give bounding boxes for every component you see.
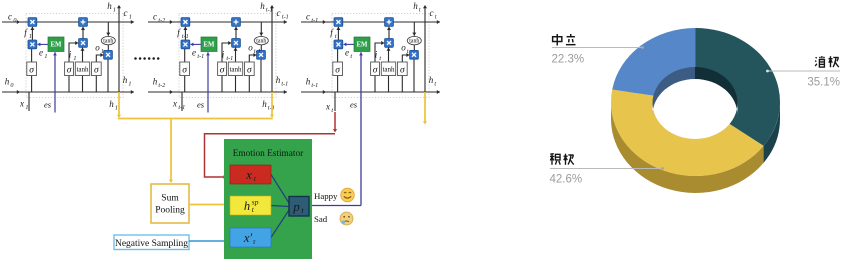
svg-text:es: es — [197, 100, 205, 110]
node input multiply (cell 1) — [79, 39, 88, 48]
svg-text:t: t — [350, 53, 352, 60]
svg-text:Sum: Sum — [161, 194, 179, 204]
tanh-box box (cell 3) — [381, 62, 395, 76]
label c input (cell 2) — [153, 12, 165, 24]
svg-text:h: h — [306, 77, 311, 87]
wire sigma3 to output mult (cell 3) — [402, 53, 409, 62]
node c-line multiply (cell 3) — [334, 18, 343, 27]
label h input (cell 1) — [5, 77, 15, 89]
label neutral Chinese — [553, 34, 576, 46]
wire tanh-box up (cell 2) — [234, 48, 238, 63]
LSTM cell 2 dotted boundary — [179, 14, 276, 98]
svg-text:c: c — [153, 12, 157, 22]
label i gate (cell 3) — [375, 50, 382, 62]
label h top (cell 1) — [107, 1, 116, 13]
label o gate (cell 2) — [248, 43, 261, 55]
wire yellow h_t drop (cell 3) — [423, 92, 427, 125]
svg-text:c: c — [8, 12, 12, 22]
wire tanh ellipse to output mult (cell 2) — [260, 45, 262, 51]
wire hidden-state line h (cell 3) — [301, 90, 440, 94]
wire c to tanh (cell 2) — [259, 22, 263, 36]
node forget multiply (cell 2) — [181, 40, 190, 49]
svg-text:t-1: t-1 — [226, 55, 233, 62]
svg-text:t-1: t-1 — [311, 82, 318, 89]
wire sigma1 up (cell 1) — [31, 49, 33, 62]
Negative Sampling box — [114, 235, 189, 250]
svg-text:1: 1 — [25, 104, 28, 111]
svg-text:σ: σ — [220, 65, 225, 75]
svg-text:Negative Sampling: Negative Sampling — [115, 239, 188, 249]
svg-text:es: es — [350, 100, 358, 110]
node output multiply (cell 3) — [410, 50, 419, 59]
wire forget gate up (cell 2) — [183, 27, 187, 40]
svg-text:tanh: tanh — [76, 65, 89, 73]
label negative Chinese — [815, 56, 839, 67]
wire sigma3 to output mult (cell 1) — [96, 53, 103, 62]
wire tanh-box up (cell 3) — [387, 48, 391, 63]
svg-text:1: 1 — [115, 104, 118, 111]
sigma1 box (cell 3) — [333, 62, 343, 76]
wire sigma2 to input mult (cell 3) — [375, 41, 384, 62]
ellipsis dots between cells — [134, 57, 159, 60]
Sum Pooling box — [151, 184, 189, 223]
Emotion Estimator green box — [224, 139, 312, 259]
svg-text:x: x — [245, 168, 252, 182]
node input multiply (cell 2) — [232, 39, 241, 48]
svg-text:h: h — [109, 99, 114, 109]
svg-text:x′: x′ — [243, 231, 253, 245]
label f gate (cell 3) — [330, 28, 337, 40]
wire EM to forget mult (cell 1) — [37, 43, 48, 47]
node c-line add (cell 2) — [232, 18, 241, 27]
svg-text:o: o — [248, 43, 253, 53]
label i gate (cell 2) — [222, 50, 234, 62]
svg-text:f: f — [177, 28, 181, 38]
svg-text:1: 1 — [128, 80, 131, 87]
label c output (cell 3) — [430, 8, 437, 20]
wire sigma1 up (cell 2) — [184, 49, 186, 62]
sigma3 box (cell 2) — [245, 62, 255, 76]
svg-text:σ: σ — [94, 65, 99, 75]
donut outer side wall (dark teal) — [764, 102, 780, 163]
svg-text:t-2: t-2 — [158, 82, 165, 89]
label Sad — [314, 214, 328, 224]
svg-text:o: o — [95, 43, 100, 53]
svg-text:Pooling: Pooling — [155, 206, 185, 216]
label es (cell 2) — [197, 100, 205, 110]
wire box stems to h line (cell 2) — [185, 76, 250, 93]
svg-text:σ: σ — [373, 65, 378, 75]
svg-text:e: e — [345, 48, 349, 58]
svg-text:tanh: tanh — [256, 39, 266, 45]
svg-text:σ: σ — [247, 65, 252, 75]
svg-text:t: t — [407, 48, 409, 55]
svg-text:es: es — [44, 100, 52, 110]
x_tau blue box — [230, 228, 271, 247]
wire forget gate up (cell 3) — [336, 27, 340, 40]
donut outer side wall (dark yellow) — [611, 102, 764, 193]
sigma2 box (cell 3) — [371, 62, 380, 76]
svg-text:t: t — [435, 13, 437, 20]
svg-text:h: h — [413, 1, 418, 11]
svg-text:EM: EM — [357, 42, 369, 49]
svg-text:Emotion Estimator: Emotion Estimator — [233, 149, 304, 159]
svg-text:t: t — [434, 80, 436, 87]
leader line negative (xiaoji) — [766, 70, 840, 73]
label c output (cell 1) — [124, 8, 132, 20]
donut segment: positive (yellow) 42.6% — [611, 90, 764, 176]
label Happy — [314, 191, 338, 201]
svg-text:1: 1 — [129, 13, 132, 20]
wire tanh ellipse to output mult (cell 3) — [413, 45, 415, 51]
leader line positive (jiji) — [550, 167, 664, 170]
leader line neutral (zhongli) — [552, 46, 644, 49]
x_t red box — [230, 165, 271, 184]
wire EM to forget mult (cell 2) — [190, 43, 201, 47]
sigma1 box (cell 1) — [27, 62, 37, 76]
svg-text:c: c — [277, 8, 281, 18]
svg-text:t: t — [419, 6, 421, 13]
svg-text:t-1: t-1 — [282, 13, 289, 20]
wire yellow collector — [118, 118, 273, 120]
svg-text:35.1%: 35.1% — [807, 77, 840, 89]
label e (cell 3) — [345, 48, 352, 60]
label f gate (cell 2) — [177, 28, 189, 40]
tanh ellipse (cell 3) — [407, 36, 421, 44]
wire c to tanh (cell 3) — [412, 22, 416, 36]
svg-text:c: c — [306, 12, 310, 22]
svg-text:h: h — [153, 77, 158, 87]
node c-line multiply (cell 1) — [28, 18, 37, 27]
wire sigma2 to input mult (cell 2) — [222, 41, 231, 62]
h_t^sp yellow box — [230, 196, 271, 215]
label h input (cell 2) — [153, 77, 166, 89]
tanh ellipse (cell 1) — [101, 36, 115, 44]
svg-text:e: e — [192, 48, 196, 58]
wire h output branch up (cell 1) — [117, 5, 121, 92]
svg-text:22.3%: 22.3% — [552, 54, 585, 66]
wire output mult down to h line (cell 3) — [413, 59, 415, 92]
svg-text:σ: σ — [29, 65, 34, 75]
svg-text:x: x — [19, 99, 24, 109]
svg-text:h: h — [107, 1, 112, 11]
svg-text:f: f — [330, 28, 334, 38]
svg-text:τ: τ — [253, 237, 256, 246]
svg-text:EM: EM — [204, 42, 216, 49]
svg-text:i: i — [222, 50, 225, 60]
wire tanh ellipse to output mult (cell 1) — [107, 45, 109, 51]
svg-text:i: i — [375, 50, 378, 60]
svg-text:0: 0 — [10, 82, 14, 89]
svg-text:c: c — [124, 8, 128, 18]
svg-text:1: 1 — [73, 55, 76, 62]
donut segment: negative (teal) 35.1% — [696, 28, 781, 146]
svg-text:e: e — [39, 48, 43, 58]
EM box (cell 1) — [48, 37, 64, 52]
wire h output branch up (cell 3) — [423, 5, 427, 92]
tanh ellipse (cell 2) — [254, 36, 268, 44]
label es (cell 3) — [350, 100, 358, 110]
sigma1 box (cell 2) — [180, 62, 190, 76]
label e (cell 1) — [39, 48, 47, 60]
svg-text:σ: σ — [400, 65, 405, 75]
svg-text:t-1: t-1 — [178, 104, 185, 111]
svg-text:tanh: tanh — [103, 39, 113, 45]
label h bottom (cell 1) — [109, 99, 118, 111]
label positive Chinese — [550, 154, 574, 165]
svg-text:h: h — [276, 75, 281, 85]
svg-text:t: t — [335, 33, 337, 40]
tanh-box box (cell 2) — [228, 62, 242, 76]
node c-line add (cell 1) — [79, 18, 88, 27]
wire output mult down to h line (cell 1) — [107, 59, 109, 92]
label neutral percent 22.3% — [552, 54, 585, 66]
svg-text:o: o — [401, 43, 406, 53]
svg-text:t-1: t-1 — [182, 33, 189, 40]
LSTM cell 1 dotted boundary — [26, 14, 123, 98]
svg-text:c: c — [430, 8, 434, 18]
svg-text:i: i — [69, 50, 72, 60]
wire c to tanh (cell 1) — [106, 22, 110, 36]
p_t box — [289, 197, 309, 217]
label x input (cell 2) — [172, 99, 185, 111]
label h bottom (cell 2) — [262, 99, 275, 111]
wire x input (cell 2) — [181, 92, 183, 111]
wire x input (cell 3) — [334, 92, 336, 111]
svg-text:1: 1 — [113, 6, 116, 13]
wire input gate up (cell 2) — [234, 27, 238, 39]
svg-text:h: h — [429, 75, 434, 85]
svg-text:t-1: t-1 — [311, 17, 318, 24]
donut inner hole wall (dark blue, left) — [653, 67, 696, 115]
svg-text:σ: σ — [182, 65, 187, 75]
wire h output branch up (cell 2) — [270, 5, 274, 92]
label negative percent 35.1% — [807, 77, 840, 89]
wire input gate up (cell 1) — [81, 27, 85, 39]
label h top (cell 3) — [413, 1, 421, 13]
tanh-box box (cell 1) — [75, 62, 89, 76]
svg-text:h: h — [260, 1, 265, 11]
wire es input (cell 2) — [206, 52, 210, 112]
svg-text:p: p — [292, 199, 300, 214]
wire yellow Sum Pooling to h_t^sp — [189, 202, 228, 206]
node forget multiply (cell 1) — [28, 40, 37, 49]
svg-text:42.6%: 42.6% — [550, 174, 583, 186]
svg-text:Happy: Happy — [314, 191, 338, 201]
svg-text:t: t — [379, 55, 381, 62]
svg-text:t-1: t-1 — [281, 80, 288, 87]
wire box stems to h line (cell 3) — [338, 76, 403, 93]
svg-text:f: f — [24, 28, 28, 38]
svg-text:t: t — [331, 107, 333, 114]
label es (cell 1) — [44, 100, 52, 110]
sigma2 box (cell 1) — [65, 62, 74, 76]
connector lines to p_t — [271, 175, 289, 238]
svg-text:EM: EM — [51, 42, 63, 49]
svg-text:h: h — [262, 99, 267, 109]
label c output (cell 2) — [277, 8, 289, 20]
wire es input (cell 1) — [53, 52, 57, 112]
wire navy es line cell3 down to p_t — [309, 52, 363, 205]
label f gate (cell 1) — [24, 28, 32, 40]
svg-text:h: h — [244, 199, 250, 213]
svg-text:σ: σ — [335, 65, 340, 75]
label x input (cell 1) — [19, 99, 28, 111]
wire hidden-state line h (cell 2) — [148, 90, 287, 94]
wire blue Negative Sampling to x_tau — [189, 239, 228, 243]
wire red x_t to estimator — [205, 112, 338, 179]
label c input (cell 3) — [306, 12, 318, 24]
svg-text:sp: sp — [252, 197, 259, 206]
sad emoji — [340, 212, 353, 225]
wire yellow h1 drop (cell 1) — [117, 92, 121, 118]
wire box stems to h line (cell 1) — [32, 76, 97, 93]
wire input gate up (cell 3) — [387, 27, 391, 39]
svg-text:h: h — [5, 77, 10, 87]
wire hidden-state line h (cell 1) — [2, 90, 134, 94]
svg-text:x: x — [325, 102, 330, 112]
label i gate (cell 1) — [69, 50, 77, 62]
wire sigma1 up (cell 3) — [337, 49, 339, 62]
sigma3 box (cell 3) — [398, 62, 408, 76]
EM box (cell 2) — [201, 37, 217, 52]
node forget multiply (cell 3) — [334, 40, 343, 49]
label o gate (cell 3) — [401, 43, 409, 55]
node output multiply (cell 2) — [257, 50, 266, 59]
svg-text:1: 1 — [29, 33, 32, 40]
donut inner hole wall (darkest teal, right) — [695, 67, 738, 115]
svg-text:1: 1 — [44, 53, 47, 60]
label h right (cell 3) — [429, 75, 437, 87]
svg-text:t-1: t-1 — [197, 53, 204, 60]
node input multiply (cell 3) — [385, 39, 394, 48]
EM box (cell 3) — [354, 37, 370, 52]
label o gate (cell 1) — [95, 43, 104, 55]
label h input (cell 3) — [306, 77, 319, 89]
svg-text:t-1: t-1 — [254, 48, 261, 55]
label h right (cell 1) — [123, 75, 132, 87]
svg-text:h: h — [123, 75, 128, 85]
svg-text:1: 1 — [101, 48, 104, 55]
svg-text:x: x — [172, 99, 177, 109]
happy emoji — [341, 188, 355, 202]
label h top (cell 2) — [260, 1, 273, 13]
svg-text:tanh: tanh — [229, 65, 242, 73]
wire tanh-box up (cell 1) — [81, 48, 85, 63]
node output multiply (cell 1) — [104, 50, 113, 59]
wire EM to forget mult (cell 3) — [343, 43, 354, 47]
wire cell-state line c (cell 1) — [2, 20, 134, 24]
wire cell-state line c (cell 2) — [148, 20, 287, 24]
sigma2 box (cell 2) — [218, 62, 227, 76]
svg-text:σ: σ — [67, 65, 72, 75]
label h right (cell 2) — [276, 75, 289, 87]
LSTM cell 3 dotted boundary — [332, 14, 429, 98]
wire forget gate up (cell 1) — [30, 27, 34, 40]
wire yellow h drop (cell 2) — [270, 92, 274, 118]
svg-text:t-2: t-2 — [158, 17, 165, 24]
node c-line multiply (cell 2) — [181, 18, 190, 27]
wire output mult down to h line (cell 2) — [260, 59, 262, 92]
donut segment: neutral (blue) 22.3% — [612, 28, 695, 102]
wire x input (cell 1) — [28, 92, 30, 111]
wire cell-state line c (cell 3) — [301, 20, 440, 24]
label x input (cell 3) — [325, 102, 333, 114]
wire sigma2 to input mult (cell 1) — [69, 41, 78, 62]
svg-text:t-1: t-1 — [266, 6, 273, 13]
wire yellow drop to Sum Pooling — [169, 119, 173, 184]
wire sigma3 to output mult (cell 2) — [249, 53, 256, 62]
label positive percent 42.6% — [550, 174, 583, 186]
label c input (cell 1) — [8, 12, 17, 24]
donut white hole — [653, 79, 738, 139]
svg-text:Sad: Sad — [314, 214, 328, 224]
sigma3 box (cell 1) — [92, 62, 102, 76]
label e (cell 2) — [192, 48, 204, 60]
svg-text:tanh: tanh — [409, 39, 419, 45]
svg-text:tanh: tanh — [382, 65, 395, 73]
node c-line add (cell 3) — [385, 18, 394, 27]
